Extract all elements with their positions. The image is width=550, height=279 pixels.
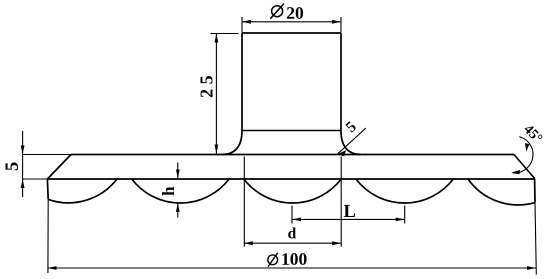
plate right edge (534, 179, 536, 203)
plate top surface (71, 154, 514, 156)
scallop arc 5 (clipped right) (468, 179, 535, 205)
arrowhead 45 arc lower (511, 170, 520, 174)
label Ø100 (268, 249, 308, 269)
dim d extension lines (244, 157, 341, 247)
45 degree angular arc (513, 137, 533, 173)
arrowhead fillet leader (337, 150, 346, 156)
left chamfer (47, 155, 71, 180)
svg-text:20: 20 (286, 3, 304, 23)
left fillet (222, 131, 243, 155)
arrowheads Ø20 (242, 20, 251, 24)
arrowheads 25 (215, 34, 219, 43)
svg-text:h: h (159, 186, 178, 196)
dim Ø20 line (242, 21, 341, 23)
arrowhead 45 arc upper (525, 143, 529, 152)
arrowheads L (292, 218, 301, 222)
svg-text:5: 5 (3, 162, 23, 171)
arrowheads h (outside) (176, 170, 180, 179)
scallop arc 1 (clipped left) (48, 179, 117, 203)
svg-text:45°: 45° (520, 122, 544, 146)
fillet tangent line (242, 130, 341, 132)
scallop arc 4 (356, 179, 453, 203)
arrowheads Ø100 (48, 266, 57, 270)
arrowheads d (244, 241, 253, 245)
dim Ø100 line (48, 267, 537, 269)
dim 25 line (215, 34, 217, 154)
svg-text:5: 5 (343, 118, 360, 136)
dim L extension ticks (292, 206, 405, 224)
dim 5 bottom ext (plate bottom extended) (23, 178, 48, 180)
svg-text:100: 100 (281, 249, 308, 269)
plate left edge (46, 179, 49, 199)
arrowheads 5 (outside) (21, 146, 25, 155)
dim Ø100 extension lines (48, 199, 536, 274)
right chamfer (514, 155, 535, 179)
dim 25 top extension (211, 33, 239, 35)
svg-text:25: 25 (196, 71, 216, 98)
svg-text:d: d (288, 225, 297, 242)
cylinder boss outline (242, 33, 341, 131)
right fillet (341, 131, 362, 155)
dim h upper segment (177, 163, 179, 179)
scallop arc 3 (244, 179, 341, 203)
dim h lower segment (177, 203, 179, 218)
svg-text:L: L (343, 202, 355, 222)
dim 5 plate thickness line (22, 131, 24, 197)
dim Ø20 extension ticks (242, 17, 341, 33)
dim 5 top ext (plate top extended) (23, 154, 71, 156)
dim d line (244, 242, 341, 244)
fillet R5 leader line (337, 128, 366, 154)
dim L line (292, 218, 405, 220)
plate bottom surface (47, 178, 534, 180)
label Ø20 (270, 3, 304, 23)
scallop arc 2 (132, 179, 229, 203)
